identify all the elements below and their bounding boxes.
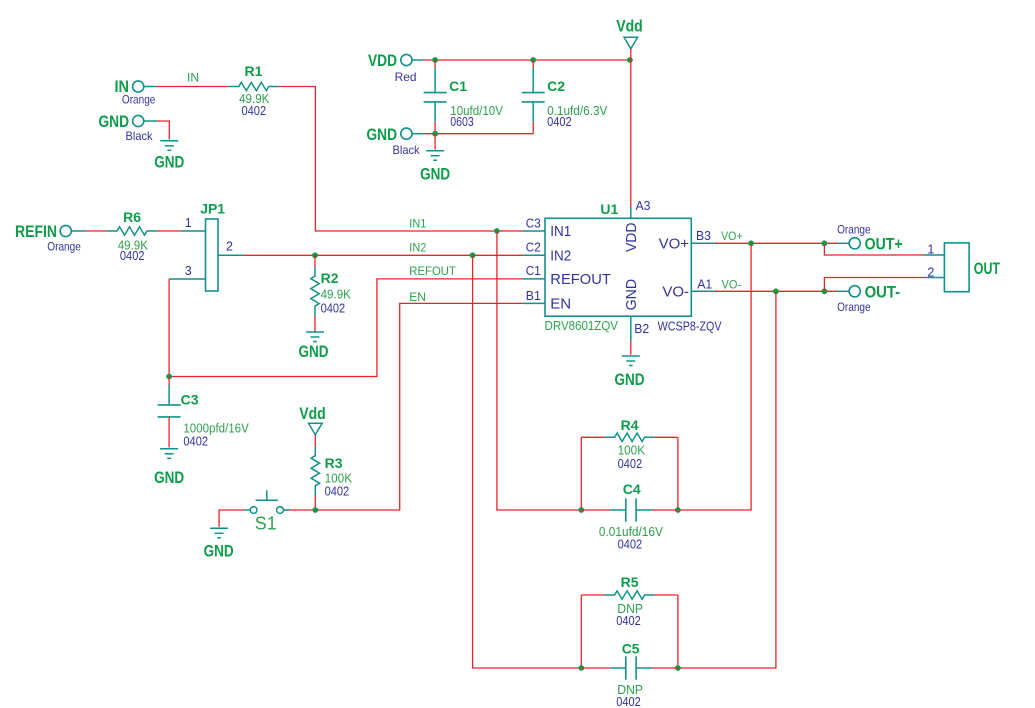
junction C4 left	[578, 507, 584, 513]
JP1 pin 3 stub	[169, 278, 205, 280]
svg-text:2: 2	[927, 266, 934, 280]
resistor R5	[581, 594, 604, 596]
svg-text:B1: B1	[526, 289, 541, 303]
svg-text:VDD: VDD	[368, 51, 397, 70]
svg-text:C4: C4	[623, 481, 641, 497]
svg-text:2: 2	[226, 240, 233, 254]
svg-text:R1: R1	[245, 63, 263, 79]
junction at Vdd drop	[627, 57, 633, 63]
svg-text:C1: C1	[526, 264, 541, 278]
svg-text:49.9K: 49.9K	[321, 287, 352, 301]
svg-text:Orange: Orange	[837, 300, 871, 314]
op-amp driver U1 DRV8601ZQV	[545, 218, 691, 316]
svg-text:Orange: Orange	[47, 240, 81, 254]
svg-text:REFOUT: REFOUT	[550, 271, 611, 288]
svg-text:100K: 100K	[325, 472, 353, 486]
capacitor C2	[532, 60, 534, 68]
svg-text:GND: GND	[154, 153, 184, 172]
wire GND rail under C1/C2	[423, 133, 533, 135]
junction REFOUT/C3	[166, 374, 172, 380]
svg-text:GND: GND	[204, 542, 234, 561]
junction C5 left	[578, 665, 584, 671]
svg-text:0402: 0402	[547, 115, 572, 129]
svg-text:Vdd: Vdd	[299, 404, 326, 423]
JP1 pin 2 stub	[218, 254, 244, 256]
svg-text:B3: B3	[696, 229, 711, 243]
svg-text:0402: 0402	[183, 435, 208, 449]
svg-text:0603: 0603	[450, 115, 474, 129]
U1 pin C1 stub (REFOUT)	[523, 278, 545, 280]
svg-text:R6: R6	[123, 209, 141, 225]
svg-text:OUT+: OUT+	[865, 235, 903, 254]
wire R1 to IN1 (down and right to U1 pin C3)	[279, 87, 523, 232]
junction VO+/OUT pin1	[822, 240, 828, 246]
ground symbol (under R2)	[306, 332, 324, 342]
jumper JP1	[206, 219, 219, 291]
ground symbol (under C3)	[160, 449, 178, 459]
junction R2 on IN2 wire	[312, 252, 318, 258]
U1 pin B1 stub (EN)	[523, 302, 545, 304]
connector OUT	[944, 243, 969, 292]
svg-text:1000pfd/16V: 1000pfd/16V	[183, 422, 249, 436]
junction IN2/feedback	[470, 252, 476, 258]
svg-text:Orange: Orange	[122, 93, 156, 107]
svg-text:C2: C2	[526, 240, 541, 254]
wire VO- to OUT- port	[714, 290, 838, 292]
svg-text:0402: 0402	[325, 485, 350, 499]
capacitor C5	[581, 667, 610, 669]
svg-text:A3: A3	[636, 199, 651, 213]
svg-text:JP1: JP1	[200, 200, 225, 216]
svg-text:REFIN: REFIN	[15, 222, 57, 241]
svg-text:VO+: VO+	[721, 229, 743, 243]
port GND mid (black test point)	[401, 128, 412, 139]
svg-text:0402: 0402	[616, 695, 641, 708]
wire IN port to R1	[156, 86, 229, 88]
svg-text:U1: U1	[600, 201, 618, 217]
junction IN1/feedback	[494, 228, 500, 234]
wire R6 to JP1 pin 1	[157, 230, 181, 232]
svg-text:B2: B2	[634, 322, 649, 336]
svg-text:EN: EN	[409, 290, 426, 304]
svg-text:VO-: VO-	[722, 277, 742, 291]
port VDD (red test point)	[401, 54, 412, 65]
svg-text:0402: 0402	[618, 538, 643, 552]
ground symbol (under U1)	[622, 356, 640, 366]
ground symbol (under C1)	[426, 151, 444, 161]
wire U1 GND pin to ground	[630, 341, 632, 354]
wire VDD rail	[423, 59, 630, 61]
wire U1 REFOUT (pin C1) to C3 node	[169, 279, 523, 377]
svg-text:Red: Red	[395, 70, 417, 84]
svg-text:WCSP8-ZQV: WCSP8-ZQV	[658, 319, 722, 334]
svg-text:C5: C5	[622, 640, 640, 656]
resistor R4	[581, 436, 604, 438]
svg-text:3: 3	[185, 264, 192, 278]
wire OUT pin 2	[824, 278, 924, 292]
svg-text:GND: GND	[420, 164, 450, 183]
svg-text:GND: GND	[99, 112, 130, 131]
svg-text:C3: C3	[526, 216, 541, 230]
wire C4 left up to R4 left	[580, 437, 582, 510]
svg-text:IN: IN	[187, 70, 199, 84]
svg-text:1: 1	[927, 243, 934, 257]
U1 pin A3 stub	[630, 207, 632, 218]
resistor R3	[314, 435, 316, 447]
junction C4 right	[675, 507, 681, 513]
port OUT- (orange test point)	[849, 286, 860, 297]
wire REFIN to R6	[86, 230, 107, 232]
junction at C1 top	[432, 57, 438, 63]
svg-text:0402: 0402	[120, 249, 145, 263]
svg-text:Vdd: Vdd	[616, 17, 643, 36]
switch S1 (pushbutton)	[244, 490, 289, 513]
svg-text:GND: GND	[623, 279, 640, 311]
svg-text:IN1: IN1	[550, 223, 571, 240]
U1 pin C2 stub (IN2)	[523, 254, 545, 256]
svg-text:0402: 0402	[242, 104, 267, 118]
svg-text:R3: R3	[325, 455, 343, 471]
resistor R1	[229, 82, 279, 90]
OUT pin 2 stub	[924, 277, 944, 279]
svg-text:GND: GND	[615, 370, 645, 389]
U1 pin B2 stub (GND)	[630, 316, 632, 341]
svg-text:R2: R2	[321, 270, 339, 286]
svg-text:Orange: Orange	[837, 223, 871, 237]
port IN (orange test point)	[133, 81, 144, 92]
U1 pin C3 stub (IN1)	[523, 230, 545, 232]
svg-text:C3: C3	[181, 392, 199, 408]
svg-text:EN: EN	[550, 295, 571, 312]
U1 pin B3 stub (VO+)	[691, 242, 714, 244]
junction at C1 bottom	[432, 131, 438, 137]
wire C5 right up to R5 right	[677, 595, 679, 668]
svg-text:DRV8601ZQV: DRV8601ZQV	[545, 318, 619, 333]
svg-text:0402: 0402	[616, 614, 641, 628]
svg-text:IN2: IN2	[550, 247, 571, 264]
wire C4 right up to R4 right	[677, 437, 679, 510]
capacitor C3	[168, 377, 170, 386]
junction VO-/feedback	[773, 288, 779, 294]
wire OUT pin 1	[824, 243, 924, 255]
capacitor C1	[434, 60, 436, 68]
svg-text:100K: 100K	[618, 444, 646, 458]
junction VO+/feedback	[748, 240, 754, 246]
junction C5 right	[675, 665, 681, 671]
ground symbol (top-left)	[160, 141, 178, 151]
svg-text:IN2: IN2	[409, 241, 426, 255]
wire VO+ node down to C4 right	[678, 243, 751, 510]
svg-text:GND: GND	[367, 125, 398, 144]
junction at C2 top	[530, 57, 536, 63]
resistor R2	[314, 255, 316, 267]
wire JP1 pin 2 to U1 IN2 (pin C2)	[244, 254, 524, 256]
wire IN1 node down to C4 left	[497, 231, 581, 510]
svg-text:Black: Black	[126, 129, 154, 143]
wire U1 EN (pin B1) to switch/R3 node	[283, 303, 523, 510]
port GND top-left (black test point)	[133, 115, 144, 126]
svg-text:VDD: VDD	[623, 222, 640, 252]
wire JP1 pin 3 down to REFOUT node	[168, 279, 170, 377]
wire S1 to ground	[219, 510, 244, 527]
wire GND port to ground	[157, 121, 169, 140]
svg-text:OUT: OUT	[974, 259, 1001, 278]
resistor R6	[107, 227, 157, 235]
junction R3/S1/EN	[312, 507, 318, 513]
wire IN2 node down to C5 left	[473, 255, 582, 668]
svg-text:A1: A1	[697, 277, 712, 291]
wire VO- node down to C5 right	[678, 291, 776, 668]
port OUT+ (orange test point)	[849, 238, 860, 249]
capacitor C4	[581, 509, 610, 511]
svg-text:GND: GND	[154, 468, 184, 487]
port REFIN (orange test point)	[60, 225, 71, 236]
svg-text:OUT-: OUT-	[865, 283, 901, 302]
svg-text:R4: R4	[621, 417, 639, 433]
svg-text:0402: 0402	[321, 301, 346, 315]
ground symbol (under S1)	[210, 528, 228, 538]
svg-text:1: 1	[185, 216, 192, 230]
svg-text:0402: 0402	[618, 457, 643, 471]
wire Vdd rail down to U1 VDD pin	[630, 60, 632, 207]
svg-text:VO-: VO-	[662, 283, 689, 300]
svg-text:C2: C2	[547, 78, 565, 94]
wire VO+ to OUT+ port	[714, 242, 838, 244]
wire C5 left up to R5 left	[580, 595, 582, 668]
svg-text:S1: S1	[255, 514, 277, 534]
svg-text:IN1: IN1	[409, 217, 426, 231]
svg-text:REFOUT: REFOUT	[409, 264, 456, 278]
svg-text:VO+: VO+	[659, 235, 690, 252]
JP1 pin 1 stub	[181, 230, 205, 232]
svg-text:R5: R5	[621, 574, 639, 590]
junction VO-/OUT pin2	[822, 288, 828, 294]
OUT pin 1 stub	[924, 254, 944, 256]
U1 pin A1 stub (VO-)	[691, 290, 714, 292]
wire to ground under C1	[434, 134, 436, 150]
svg-text:C1: C1	[449, 78, 467, 94]
svg-text:GND: GND	[299, 342, 329, 361]
svg-text:Black: Black	[393, 143, 421, 157]
